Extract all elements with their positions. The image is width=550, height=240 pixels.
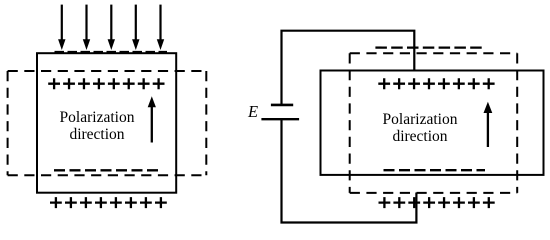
minus charge row inside bottom (right diagram) xyxy=(384,169,486,171)
minus charge row inside bottom (left diagram) xyxy=(54,169,158,171)
force arrow F1 (left diagram) xyxy=(58,5,65,50)
svg-text:Polarization: Polarization xyxy=(383,111,458,128)
plus charge row inside top (right diagram) xyxy=(378,78,494,89)
solid crystal body (right diagram) xyxy=(321,71,544,175)
force arrow F3 (left diagram) xyxy=(108,5,115,50)
plus charge row inside top (left diagram) xyxy=(48,78,164,89)
svg-text:direction: direction xyxy=(392,128,447,145)
solid crystal body (left diagram) xyxy=(37,53,176,193)
force arrow F4 (left diagram) xyxy=(132,5,139,50)
force arrow F2 (left diagram) xyxy=(83,5,90,50)
svg-text:E: E xyxy=(247,102,258,121)
dashed deformed outline (right diagram) xyxy=(350,53,518,193)
minus charge row above dashed top edge (right diagram) xyxy=(375,46,483,48)
plus charge row below bottom electrode (left diagram) xyxy=(50,197,167,208)
dashed deformed outline (left diagram) xyxy=(8,71,207,175)
plus charge row below dashed bottom edge (right diagram) xyxy=(379,197,495,208)
svg-text:direction: direction xyxy=(69,126,124,143)
force arrow F5 (left diagram) xyxy=(157,5,164,50)
wire: battery bottom to crystal bottom xyxy=(282,119,417,222)
polarization direction arrow (left diagram) xyxy=(148,96,156,142)
battery E: short plate (top) xyxy=(271,104,293,107)
wire: battery top to crystal top electrode xyxy=(282,31,415,105)
battery E: long plate (bottom) xyxy=(261,118,299,120)
svg-text:Polarization: Polarization xyxy=(60,109,135,126)
polarization direction arrow (right diagram) xyxy=(484,102,493,147)
minus charge row on top electrode (left diagram) xyxy=(55,51,168,53)
